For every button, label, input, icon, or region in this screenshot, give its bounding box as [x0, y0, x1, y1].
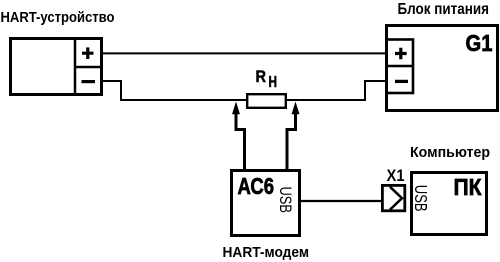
connector X1 chevron: [390, 187, 402, 210]
minus terminal of HART device: [82, 80, 96, 83]
minus terminal of power supply: [395, 80, 408, 83]
svg-text:АС6: АС6: [238, 173, 275, 199]
resistor RH: [247, 94, 286, 108]
HART device box: [11, 39, 102, 95]
svg-text:G1: G1: [466, 30, 493, 56]
svg-text:R: R: [256, 67, 267, 86]
svg-text:USB: USB: [411, 185, 431, 212]
svg-text:HART-устройство: HART-устройство: [1, 10, 115, 26]
PC box: [412, 173, 487, 235]
svg-text:Компьютер: Компьютер: [410, 145, 490, 161]
wire USB cable: [300, 200, 382, 202]
AC6 HART-modem box: [232, 171, 300, 236]
power supply terminal box: [387, 40, 414, 94]
right measurement arrow shaft: [287, 112, 296, 170]
left measurement arrow head: [232, 102, 240, 115]
plus terminal of HART device: [82, 47, 94, 59]
svg-text:ПК: ПК: [454, 174, 483, 200]
connector X1 box: [382, 185, 404, 210]
svg-text:Блок питания: Блок питания: [398, 1, 490, 18]
HART device terminal divider (vertical): [74, 37, 77, 96]
svg-text:X1: X1: [387, 167, 405, 185]
left measurement arrow shaft: [236, 112, 245, 170]
power supply box: [387, 26, 498, 111]
power supply terminal divider: [386, 65, 414, 68]
wire plus line: [103, 52, 386, 54]
right measurement arrow head: [292, 102, 300, 115]
svg-text:H: H: [269, 74, 278, 91]
HART device terminal divider (horizontal): [74, 66, 103, 69]
svg-text:HART-модем: HART-модем: [223, 245, 310, 261]
wire minus line right: [286, 81, 386, 100]
wire minus line left: [103, 81, 248, 100]
svg-text:USB: USB: [276, 187, 295, 214]
plus terminal of power supply: [395, 48, 407, 60]
